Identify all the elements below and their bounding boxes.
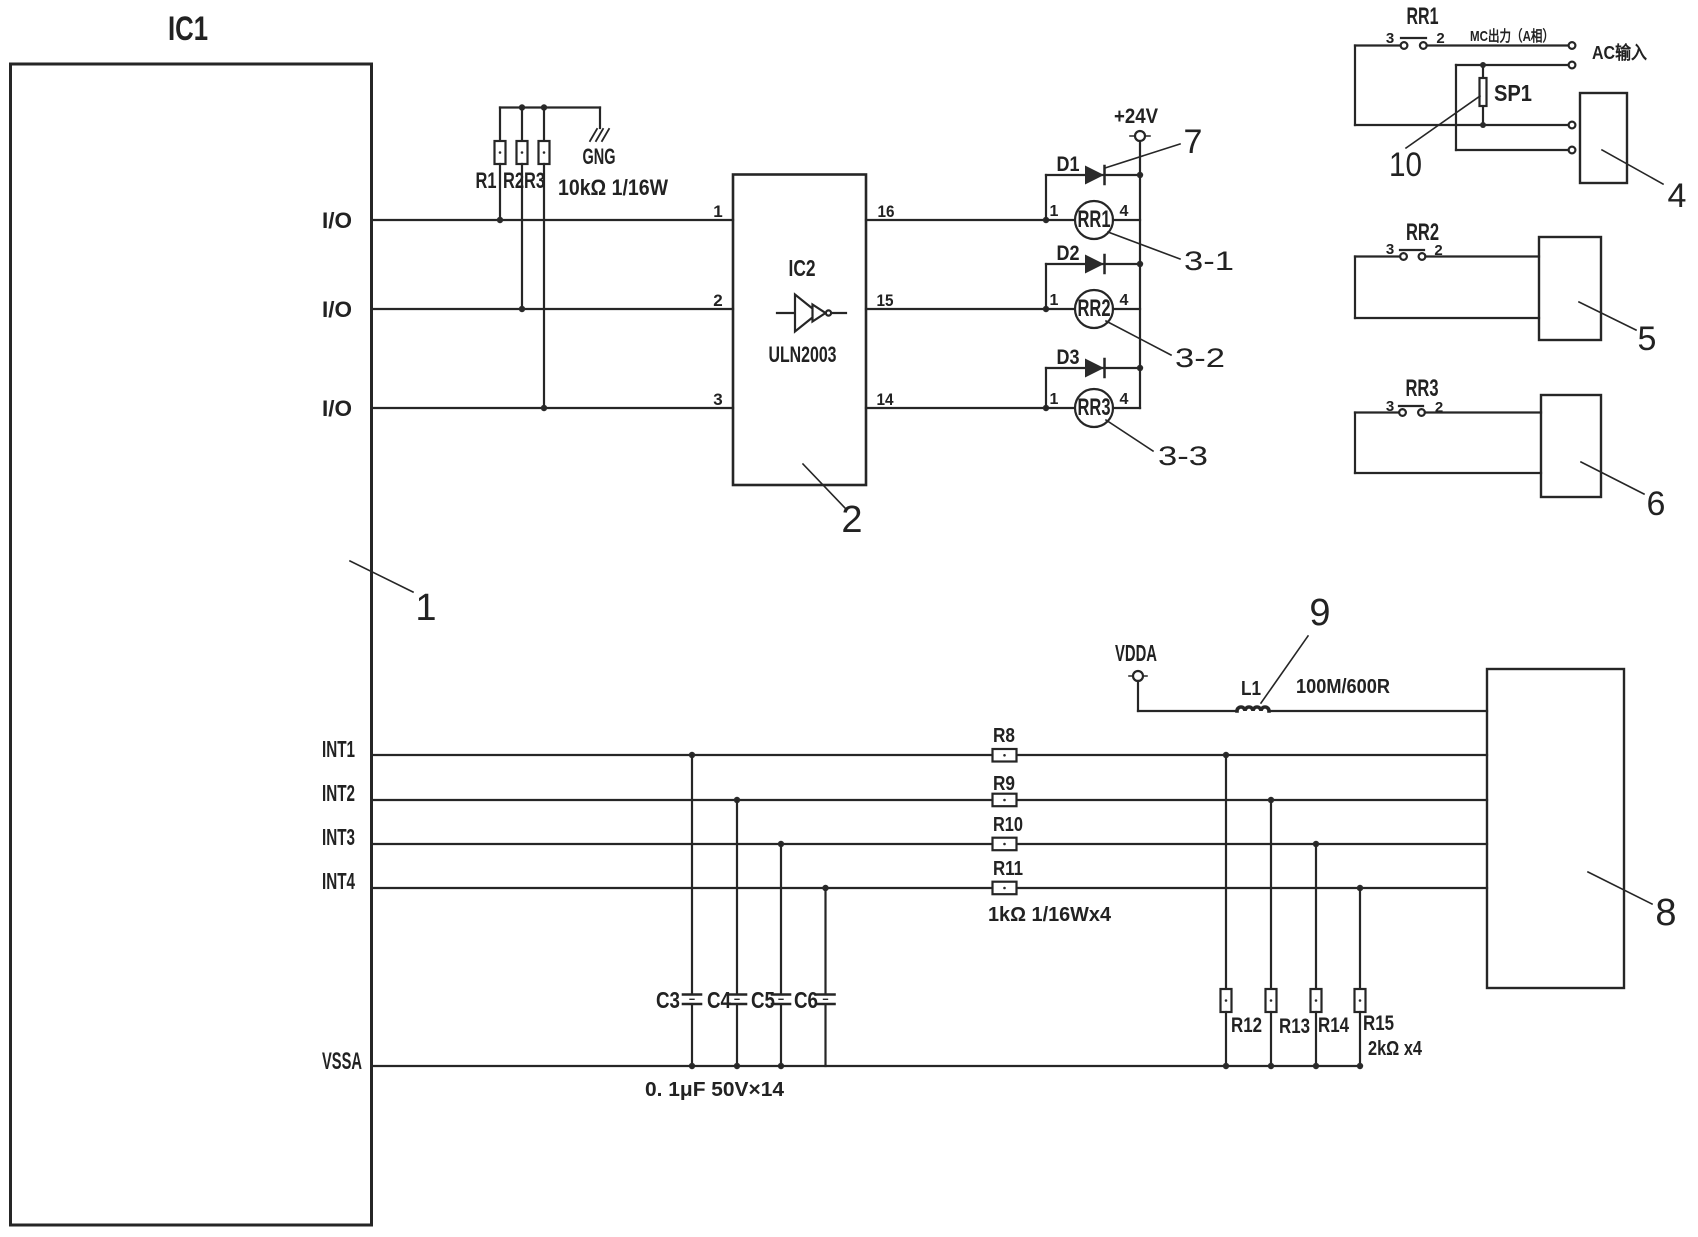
resistor R8 [993, 725, 1017, 762]
power terminal +24V [1114, 105, 1158, 141]
svg-text:1: 1 [1050, 292, 1059, 309]
wire VSSA [372, 1065, 1361, 1067]
svg-text:D2: D2 [1057, 242, 1080, 265]
svg-text:R14: R14 [1318, 1014, 1349, 1037]
wire IC2 pin16 to RR1 [866, 219, 1046, 221]
svg-text:I/O: I/O [322, 396, 352, 421]
svg-text:I/O: I/O [322, 208, 352, 233]
wire RR2 pin3 [1355, 255, 1400, 257]
svg-text:INT2: INT2 [322, 780, 355, 806]
node D3 cathode junction [1137, 365, 1143, 371]
callout 7 [1105, 123, 1202, 168]
wire left loop vertical [1354, 46, 1356, 126]
wire I/O3 from IC1 to IC2 pin 3 [372, 407, 734, 409]
resistor R12 [1221, 752, 1263, 1069]
load box 6 [1541, 395, 1601, 497]
IC1 U1 microcontroller box [11, 64, 372, 1225]
svg-text:1: 1 [415, 587, 436, 629]
svg-text:3-1: 3-1 [1184, 246, 1234, 276]
callout 3-2 [1106, 321, 1225, 373]
svg-text:R8: R8 [993, 725, 1015, 747]
svg-text:16: 16 [878, 202, 895, 221]
svg-text:GNG: GNG [583, 144, 616, 169]
svg-text:VSSA: VSSA [322, 1048, 362, 1075]
svg-text:ULN2003: ULN2003 [769, 342, 837, 367]
svg-text:14: 14 [877, 390, 894, 409]
svg-text:9: 9 [1309, 592, 1330, 634]
svg-text:100M/600R: 100M/600R [1296, 676, 1390, 698]
terminal MC out A [1569, 42, 1576, 49]
svg-text:15: 15 [877, 291, 894, 310]
relay coil RR2 [1046, 290, 1140, 328]
svg-text:AC输入: AC输入 [1592, 42, 1647, 63]
svg-text:R13: R13 [1279, 1015, 1310, 1038]
svg-text:R11: R11 [993, 858, 1023, 880]
wire INT4 [372, 887, 1488, 889]
buffer symbol inside IC2 [777, 295, 846, 332]
callout 2 [803, 464, 863, 541]
callout 3-1 [1108, 232, 1234, 276]
svg-text:MC出力（A相）: MC出力（A相） [1470, 27, 1554, 45]
resistor R3 [524, 108, 550, 412]
svg-text:RR3: RR3 [1406, 375, 1439, 402]
callout 9 [1261, 592, 1331, 703]
svg-text:IC2: IC2 [789, 255, 816, 281]
svg-text:2: 2 [713, 291, 722, 310]
wire RR2 loop vertical [1354, 257, 1356, 319]
capacitor C6 [794, 885, 835, 1066]
wire D2 left branch [1045, 264, 1047, 309]
relay coil RR1 [1046, 201, 1140, 239]
terminal line 4 [1569, 147, 1576, 154]
svg-text:1: 1 [713, 202, 722, 221]
resistor R1 [476, 108, 506, 224]
callout 10 [1389, 96, 1480, 184]
svg-text:3-2: 3-2 [1175, 343, 1225, 373]
load box 5 [1539, 237, 1601, 340]
svg-text:0. 1μF 50V×14: 0. 1μF 50V×14 [645, 1079, 785, 1101]
callout 1 [350, 561, 437, 629]
relay contact RR1 top right [1386, 3, 1445, 49]
svg-text:L1: L1 [1241, 678, 1261, 700]
wire RR3 pin2 to box 6 [1425, 411, 1541, 413]
node RR1 pin1 junction [1043, 217, 1049, 223]
svg-text:2kΩ x4: 2kΩ x4 [1368, 1038, 1423, 1060]
wire RR2 loop bottom [1355, 317, 1539, 319]
wire INT2 [372, 799, 1488, 801]
svg-text:INT1: INT1 [322, 736, 355, 762]
wire RR3 pin3 [1355, 411, 1399, 413]
wire AC line 2 horizontal [1456, 64, 1569, 66]
capacitor C3 [656, 752, 701, 1069]
svg-text:INT4: INT4 [322, 868, 355, 894]
wire I/O1 from IC1 to IC2 pin 1 [372, 219, 734, 221]
svg-text:C3: C3 [656, 987, 680, 1013]
callout 4 [1602, 150, 1686, 215]
svg-text:C6: C6 [794, 987, 818, 1013]
svg-text:RR2: RR2 [1078, 295, 1111, 322]
svg-text:3: 3 [713, 390, 722, 409]
svg-text:D3: D3 [1057, 346, 1080, 369]
resistor R2 [503, 108, 528, 313]
svg-text:SP1: SP1 [1494, 80, 1532, 106]
svg-text:1kΩ 1/16Wx4: 1kΩ 1/16Wx4 [988, 904, 1112, 926]
terminal line 3 [1569, 122, 1576, 129]
node RR3 pin1 junction [1043, 405, 1049, 411]
svg-text:4: 4 [1120, 203, 1129, 220]
resistor R9 [993, 773, 1017, 806]
svg-text:R9: R9 [993, 773, 1015, 795]
wire inner loop vertical [1455, 65, 1457, 150]
svg-text:R15: R15 [1363, 1012, 1394, 1035]
svg-text:R1: R1 [476, 168, 497, 193]
diode D2 [1046, 242, 1140, 274]
svg-text:R12: R12 [1231, 1014, 1262, 1037]
callout 8 [1588, 872, 1677, 934]
node RR2 pin1 junction [1043, 306, 1049, 312]
wire RR2 pin2 to box 5 [1425, 255, 1539, 257]
svg-text:RR1: RR1 [1407, 3, 1439, 30]
callout 5 [1579, 302, 1656, 358]
svg-text:VDDA: VDDA [1115, 640, 1157, 666]
resistor R11 [993, 858, 1024, 894]
wire I/O2 from IC1 to IC2 pin 2 [372, 308, 734, 310]
wire INT1 [372, 754, 1488, 756]
wire D1 left branch [1045, 175, 1047, 220]
resistor R15 [1355, 885, 1395, 1069]
svg-text:10: 10 [1389, 146, 1422, 184]
wire bottom return to terminal 3 [1355, 124, 1569, 126]
svg-text:R2: R2 [503, 168, 524, 193]
svg-text:6: 6 [1647, 485, 1666, 523]
capacitor C4 [707, 797, 746, 1069]
svg-text:C5: C5 [751, 987, 775, 1013]
svg-text:I/O: I/O [322, 297, 352, 322]
junction R3 top [541, 104, 547, 110]
svg-text:4: 4 [1120, 391, 1129, 408]
resistor R14 [1311, 841, 1350, 1069]
wire RR1 contact pin3 [1355, 44, 1401, 46]
svg-text:+24V: +24V [1114, 105, 1158, 128]
svg-text:R10: R10 [993, 814, 1023, 836]
svg-text:2: 2 [841, 499, 862, 541]
node D2 cathode junction [1137, 261, 1143, 267]
wire to ground [599, 108, 601, 129]
svg-text:D1: D1 [1057, 153, 1080, 176]
svg-text:4: 4 [1668, 177, 1687, 215]
wire inner loop bottom to terminal 4 [1456, 149, 1569, 151]
svg-text:3-3: 3-3 [1158, 441, 1208, 471]
load box 4 [1580, 93, 1627, 183]
svg-text:IC1: IC1 [168, 10, 208, 48]
wire L1 to box 8 [1269, 710, 1487, 712]
terminal AC line 2 [1569, 62, 1576, 69]
wire VDDA to L1 [1138, 710, 1237, 712]
svg-text:5: 5 [1638, 320, 1657, 358]
wire top bus joining R1 R2 R3 tops [500, 106, 600, 108]
surge protector SP1 [1480, 62, 1533, 128]
wire RR3 loop vertical [1354, 413, 1356, 474]
wire RR3 loop bottom [1355, 472, 1541, 474]
callout 6 [1581, 462, 1665, 523]
svg-text:1: 1 [1050, 391, 1059, 408]
inductor L1 [1237, 678, 1269, 711]
sensor box 8 [1487, 669, 1624, 988]
wire +24V bus vertical [1139, 141, 1141, 408]
power terminal VDDA [1115, 640, 1157, 711]
resistor R13 [1266, 797, 1311, 1069]
ground GNG symbol [590, 129, 609, 141]
wire IC2 pin14 to RR3 [866, 407, 1046, 409]
svg-text:10kΩ 1/16W: 10kΩ 1/16W [558, 175, 668, 200]
wire D3 left branch [1045, 368, 1047, 408]
svg-text:1: 1 [1050, 203, 1059, 220]
wire INT3 [372, 843, 1488, 845]
resistor R10 [993, 814, 1024, 850]
node D1 cathode junction [1137, 172, 1143, 178]
wire IC2 pin15 to RR2 [866, 308, 1046, 310]
capacitor C5 [751, 841, 790, 1069]
svg-text:R3: R3 [524, 168, 545, 193]
svg-text:7: 7 [1184, 123, 1203, 161]
junction R2 top [519, 104, 525, 110]
diode D1 [1046, 153, 1140, 185]
diode D3 [1046, 346, 1140, 378]
callout 3-3 [1106, 420, 1208, 471]
svg-text:INT3: INT3 [322, 824, 355, 850]
svg-text:4: 4 [1120, 292, 1129, 309]
relay contact RR2 [1386, 219, 1443, 260]
IC2 ULN2003 box [733, 175, 866, 486]
wire RR1 contact pin2 to MC output terminal [1427, 44, 1569, 46]
svg-text:C4: C4 [707, 987, 731, 1013]
svg-text:RR1: RR1 [1078, 206, 1111, 233]
svg-text:RR3: RR3 [1078, 394, 1111, 421]
relay coil RR3 [1046, 389, 1140, 427]
relay contact RR3 [1386, 375, 1443, 416]
svg-text:8: 8 [1655, 892, 1676, 934]
